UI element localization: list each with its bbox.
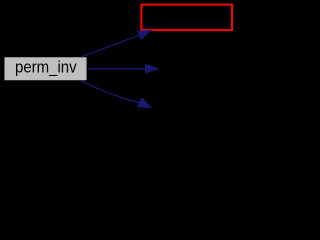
edge perm_inv -> bottom node (wire): [81, 81, 152, 108]
node bottom (black border, invisible on black): [146, 108, 236, 132]
svg-text:perm_inv: perm_inv: [15, 59, 77, 77]
arrowhead bottom: [137, 98, 151, 108]
node middle (black border, invisible on black): [159, 57, 237, 81]
edge perm_inv -> middle node (wire): [88, 64, 159, 73]
edge perm_inv -> top node (wire): [81, 30, 151, 57]
node perm_inv (current node, grey fill): [4, 57, 87, 81]
node top (truncated, red border): [141, 5, 232, 31]
arrowhead middle: [145, 64, 158, 73]
arrowhead top: [138, 30, 152, 39]
